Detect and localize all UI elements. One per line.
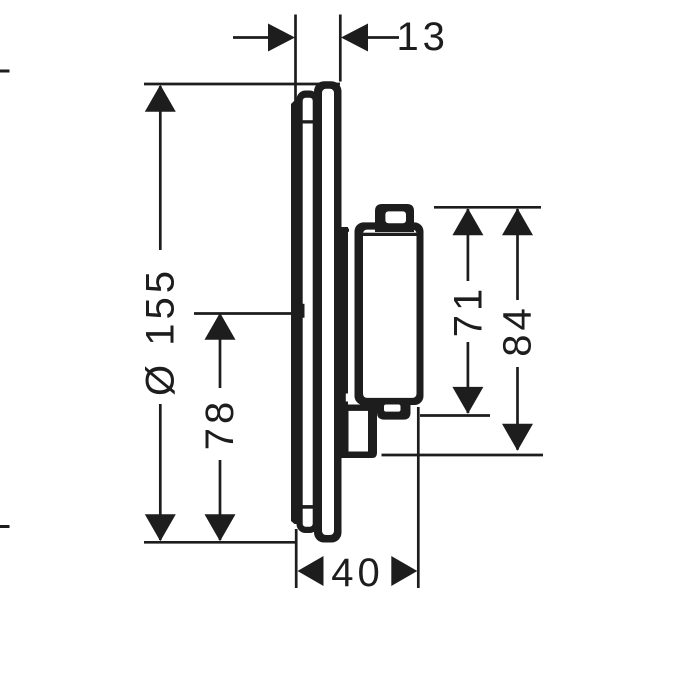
extension line 84 bottom <box>382 454 544 457</box>
extension line plate center <box>194 312 297 315</box>
dimension 40 arrows <box>298 556 324 586</box>
dimension 13 right arrow <box>341 24 368 52</box>
svg-text:78: 78 <box>198 398 242 451</box>
dimension 13 left arrow <box>233 36 270 39</box>
seal sleeve bar (left of plate) <box>291 101 298 525</box>
extension line 13 right <box>339 15 342 82</box>
extension line 40 right <box>417 407 420 588</box>
bracket notch <box>346 394 353 402</box>
extension line plate bottom <box>144 541 297 544</box>
escutcheon plate (side view) <box>314 81 342 542</box>
svg-text:Ø 155: Ø 155 <box>138 267 182 396</box>
wall tick top-left <box>0 70 10 73</box>
cartridge bottom tab <box>377 398 411 420</box>
bracket foot block <box>343 405 378 459</box>
funnel rosette bottom rib <box>302 505 313 509</box>
extension line plate top <box>144 83 340 86</box>
svg-text:13: 13 <box>396 15 449 59</box>
svg-text:40: 40 <box>331 551 384 595</box>
supply stub at plate centre <box>296 304 305 318</box>
wall tick bottom-left <box>0 525 10 528</box>
dimension 78 line <box>219 314 222 388</box>
extension line cartridge top right <box>434 206 541 209</box>
nub plate-to-bracket <box>342 229 350 232</box>
dimension 71 line <box>467 209 470 281</box>
valve cartridge body <box>355 222 424 405</box>
dimension Ø155 line <box>159 86 162 250</box>
extension line 71 bottom <box>420 414 490 417</box>
svg-text:84: 84 <box>496 304 540 357</box>
mounting bracket bar <box>341 227 348 458</box>
svg-text:71: 71 <box>447 285 491 338</box>
extension line 13 left <box>294 15 297 101</box>
extension line 40 left <box>295 529 298 588</box>
cartridge top tab <box>375 204 414 232</box>
funnel rosette body <box>297 91 319 534</box>
funnel rosette top rib <box>302 120 313 123</box>
cartridge cap seam <box>363 233 417 236</box>
dimension 84 line <box>516 209 519 300</box>
